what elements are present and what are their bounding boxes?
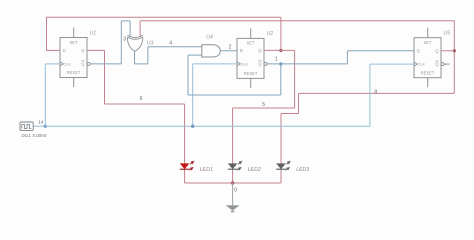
svg-text:RESET: RESET xyxy=(67,70,81,75)
junction clock at DG1 xyxy=(44,125,47,128)
svg-text:5.00Hz: 5.00Hz xyxy=(32,133,47,138)
wire net 6 run right xyxy=(105,103,185,105)
svg-text:14: 14 xyxy=(38,119,44,124)
svg-text:SET: SET xyxy=(70,40,78,45)
svg-text:LED3: LED3 xyxy=(296,167,309,173)
svg-text:D: D xyxy=(63,48,66,53)
wire Q output of U2 xyxy=(264,49,295,51)
svg-text:6: 6 xyxy=(140,96,143,102)
wire clock output stub xyxy=(33,125,45,127)
svg-text:LED1: LED1 xyxy=(200,167,213,173)
wire clock into U2 CLK xyxy=(193,63,237,65)
XOR gate U3 xyxy=(127,35,142,51)
junction on Q output of U5 xyxy=(453,49,456,52)
wire LED2 cathode to rail xyxy=(232,169,234,183)
svg-text:0: 0 xyxy=(234,188,237,194)
clock source DG1 xyxy=(20,122,33,130)
junction on Q output of U2 xyxy=(279,49,282,52)
svg-text:D: D xyxy=(240,48,243,53)
wire net 4 run to U4 input xyxy=(148,46,202,48)
svg-text:SET: SET xyxy=(424,40,432,45)
svg-text:U1: U1 xyxy=(90,30,97,36)
wire net 8 run left xyxy=(299,92,455,94)
svg-text:RESET: RESET xyxy=(244,71,258,76)
svg-text:SET: SET xyxy=(247,41,255,46)
svg-text:U4: U4 xyxy=(206,34,213,40)
wire ground rail xyxy=(185,182,281,184)
svg-text:CLK: CLK xyxy=(240,62,248,67)
wire net 8 top run xyxy=(140,20,454,22)
svg-text:CLK: CLK xyxy=(63,62,71,67)
wire Q output of U1 xyxy=(87,49,105,51)
wire net Q2-D1 top run xyxy=(46,16,281,18)
LED LED2 xyxy=(228,159,244,171)
wire clock rail net 14 xyxy=(45,125,370,127)
svg-text:RESET: RESET xyxy=(421,70,435,75)
AND gate U4 xyxy=(202,45,221,57)
wire clock riser to U2 xyxy=(192,64,194,126)
wire net Q2-D1 into U1 D pin xyxy=(47,49,61,51)
junction clock rail xyxy=(191,125,194,128)
svg-text:5: 5 xyxy=(262,102,265,108)
svg-text:8: 8 xyxy=(374,89,377,95)
wire clock into U1 CLK xyxy=(45,63,60,65)
wire net 6 down to LED1 xyxy=(184,104,186,164)
svg-text:2: 2 xyxy=(229,45,232,51)
flip-flop U2 xyxy=(237,28,267,88)
wire net 3 top jog xyxy=(121,20,130,22)
svg-text:U2: U2 xyxy=(267,31,274,37)
wire net Q2-D1 drop to Q of U2 xyxy=(280,17,282,50)
wire net 1 lower run xyxy=(188,94,281,96)
wire net 5 down to LED2 xyxy=(232,108,234,164)
wire LED3 cathode to rail xyxy=(280,169,282,183)
wire clock into U5 CLK xyxy=(370,63,414,65)
wire net 3 into XOR left input xyxy=(129,21,131,36)
svg-text:3: 3 xyxy=(123,37,126,43)
wire net 1 from U2 notQ xyxy=(267,63,348,65)
wire stub U5 notQ unconnected xyxy=(444,63,450,65)
wire Q output of U5 xyxy=(441,50,454,52)
wire net 8 right riser xyxy=(453,21,455,94)
svg-text:U5: U5 xyxy=(444,31,451,37)
svg-text:CLK: CLK xyxy=(417,62,425,67)
wire U4 lower input xyxy=(188,54,202,56)
wire XOR right input riser xyxy=(139,21,141,36)
wire net 1 into U5 D xyxy=(347,50,414,52)
wire net 2 U4 output to U2 D xyxy=(220,50,237,52)
wire net 1 riser to U4 xyxy=(187,55,189,95)
flip-flop U1 xyxy=(60,28,90,88)
wire net 1 jog up xyxy=(346,51,348,64)
wire net 1 drop xyxy=(280,64,282,95)
wire net 3 riser xyxy=(120,21,122,64)
wire net 4 riser xyxy=(147,47,149,64)
ground symbol xyxy=(227,183,239,212)
wire net 8 jog left xyxy=(281,113,299,115)
junction on notQ of U2 xyxy=(279,62,282,65)
svg-text:DG1: DG1 xyxy=(21,133,31,138)
wire net Q2-D1 left riser xyxy=(46,17,48,51)
LED LED1 (lit red) xyxy=(180,159,196,171)
wire net 4 jog right xyxy=(135,63,148,65)
LED LED3 xyxy=(276,159,292,171)
wire net 5 drop xyxy=(294,50,296,108)
svg-text:1: 1 xyxy=(275,57,278,63)
svg-text:4: 4 xyxy=(169,40,172,46)
wire net 5 run left xyxy=(233,107,295,109)
wire net 8 down to LED3 xyxy=(280,114,282,164)
flip-flop U5 xyxy=(414,28,444,87)
wire net 3 from U1 notQ xyxy=(90,63,121,65)
svg-text:LED2: LED2 xyxy=(248,167,261,173)
wire net 8 jog down xyxy=(298,93,300,113)
wire LED1 cathode to rail xyxy=(184,169,186,183)
junction ground rail xyxy=(231,181,234,184)
wire net 6 drop xyxy=(104,50,106,104)
wire clock riser to U1 xyxy=(44,64,46,126)
wire net 4 XOR output stub xyxy=(134,51,136,64)
svg-text:U3: U3 xyxy=(147,41,154,47)
wire clock riser to U5 xyxy=(369,64,371,126)
svg-text:D: D xyxy=(417,48,420,53)
